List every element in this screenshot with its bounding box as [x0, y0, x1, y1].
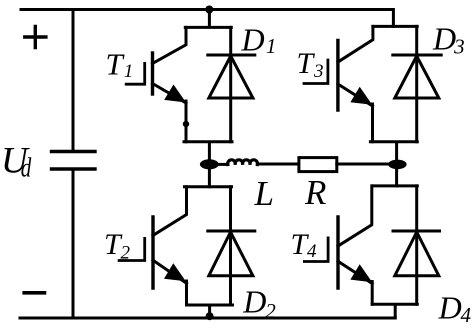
- svg-text:D: D: [438, 289, 462, 325]
- diode D2 cathode bar: [208, 230, 255, 233]
- node top-left junction: [205, 6, 213, 14]
- wire left leg lower horizontal: [185, 185, 232, 188]
- label D4: [438, 289, 472, 327]
- node A left bridge midpoint: [200, 159, 219, 169]
- svg-text:1: 1: [266, 34, 277, 58]
- wire right leg top horizontal: [373, 25, 417, 28]
- minus terminal: [24, 291, 44, 295]
- diode D4 anode-cathode wire: [415, 186, 418, 304]
- wire left leg midpoint rejoin: [184, 142, 232, 187]
- transistor Q T4 emitter wire: [338, 261, 372, 304]
- transistor Q T3 emitter wire: [338, 84, 373, 142]
- wire right leg lower horizontal: [372, 184, 417, 187]
- transistor Q T3 body bar: [336, 41, 339, 111]
- transistor Q T2 emitter arrow: [164, 263, 186, 281]
- diode D4 cathode bar: [393, 230, 440, 233]
- wire left leg top stub: [185, 10, 231, 28]
- label T3: [297, 47, 324, 82]
- resistor R body: [299, 158, 337, 172]
- diode D1 triangle: [209, 56, 253, 98]
- diode D4 triangle: [395, 232, 439, 276]
- node B right bridge midpoint: [388, 160, 406, 170]
- transistor Q T2 emitter wire: [153, 260, 187, 305]
- inductor L coil: [228, 160, 258, 165]
- transistor Q T1 collector wire: [153, 27, 187, 63]
- transistor Q T3 emitter arrow: [350, 87, 372, 105]
- svg-text:R: R: [304, 173, 326, 212]
- diode D1 anode-cathode wire: [229, 27, 232, 141]
- wire inductor to resistor: [257, 163, 299, 166]
- wire node to inductor: [218, 163, 228, 166]
- svg-text:T: T: [297, 47, 316, 80]
- svg-text:D: D: [242, 284, 266, 320]
- transistor Q T4 emitter arrow: [350, 264, 372, 282]
- wire bottom DC bus rail: [20, 317, 395, 320]
- node bottom-left junction: [206, 312, 214, 320]
- svg-text:1: 1: [124, 61, 134, 82]
- wire resistor to right node: [337, 163, 389, 166]
- label L: [254, 174, 274, 213]
- transistor Q T1 emitter arrow: [164, 85, 186, 103]
- transistor Q T4 gate: [304, 238, 328, 262]
- svg-text:D: D: [432, 21, 456, 57]
- transistor Q T1 body bar: [151, 53, 154, 94]
- plus terminal: [25, 26, 46, 47]
- node T1 emitter dot: [183, 121, 189, 127]
- transistor Q T4 collector wire: [338, 186, 372, 246]
- svg-text:2: 2: [265, 299, 276, 323]
- diode D2 anode-cathode wire: [229, 187, 232, 305]
- wire right leg bottom rejoin: [372, 304, 417, 318]
- svg-text:D: D: [241, 21, 265, 57]
- svg-text:3: 3: [453, 35, 465, 59]
- transistor Q T2 gate: [119, 238, 145, 260]
- wire top DC bus rail: [21, 10, 393, 27]
- svg-text:4: 4: [461, 303, 472, 327]
- wire left source branch: [72, 10, 75, 319]
- diode D2 triangle: [209, 232, 253, 276]
- label T2: [104, 228, 131, 263]
- transistor Q T2 collector wire: [153, 187, 187, 236]
- svg-text:2: 2: [121, 242, 131, 263]
- svg-text:4: 4: [307, 241, 317, 262]
- svg-text:d: d: [21, 153, 32, 183]
- capacitor Ud source plates: [52, 152, 96, 170]
- transistor Q T4 body bar: [336, 217, 339, 288]
- transistor Q T1 emitter wire: [153, 84, 187, 142]
- label D1: [241, 21, 277, 58]
- label T4: [291, 228, 318, 262]
- svg-text:T: T: [106, 47, 126, 82]
- label Ud: [1, 141, 32, 184]
- label D3: [432, 21, 465, 59]
- svg-text:3: 3: [313, 61, 324, 82]
- transistor Q T2 body bar: [151, 217, 154, 288]
- transistor Q T3 gate: [304, 60, 328, 84]
- diode D3 cathode bar: [393, 54, 441, 57]
- wire right leg midpoint rejoin: [370, 142, 417, 186]
- transistor Q T3 collector wire: [338, 26, 373, 62]
- diode D3 anode-cathode wire: [415, 26, 418, 141]
- label T1: [106, 47, 134, 83]
- diode D3 triangle: [395, 56, 439, 98]
- label R: [304, 173, 326, 212]
- diode D1 cathode bar: [208, 54, 255, 57]
- transistor Q T1 gate: [126, 63, 145, 84]
- wire left leg bottom rejoin: [187, 305, 233, 318]
- label D2: [242, 284, 276, 324]
- svg-text:L: L: [254, 174, 274, 213]
